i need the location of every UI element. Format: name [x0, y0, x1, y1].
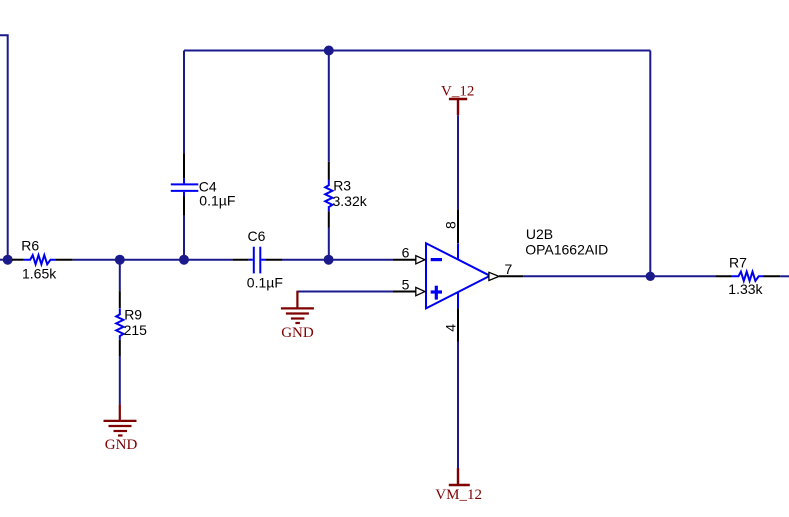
- wire left stub to left edge: [0, 259, 12, 261]
- pin 5 lead and arrow: [393, 276, 425, 295]
- node top R3 junction: [324, 46, 334, 56]
- ground GND at op-amp plus input: [281, 291, 314, 341]
- node output junction: [646, 272, 655, 281]
- wire pin 4 to VM_12: [457, 342, 459, 469]
- wire R3 bottom to main wire: [328, 228, 330, 260]
- svg-text:GND: GND: [105, 437, 138, 453]
- svg-text:5: 5: [402, 276, 410, 292]
- wire C4 junction to C6: [184, 259, 233, 261]
- wire R3 branch down from top: [328, 51, 330, 162]
- svg-text:0.1µF: 0.1µF: [247, 274, 283, 290]
- wire pin5 from GND corner: [297, 291, 393, 293]
- svg-text:R9: R9: [124, 307, 142, 323]
- wire top horizontal: [184, 50, 650, 52]
- capacitor C6: [233, 228, 283, 290]
- wire V_12 to pin 8: [457, 115, 459, 209]
- svg-text:U2B: U2B: [526, 226, 553, 242]
- svg-text:VM_12: VM_12: [435, 487, 482, 503]
- svg-text:OPA1662AID: OPA1662AID: [525, 241, 608, 257]
- capacitor C4: [171, 153, 236, 215]
- svg-text:GND: GND: [281, 325, 314, 341]
- pin 6 lead and arrow: [393, 245, 425, 264]
- wire C6 to R3 junction: [282, 259, 329, 261]
- node R9 junction: [115, 255, 125, 265]
- power symbol VM_12: [435, 468, 482, 503]
- wire C4 branch top corner: [183, 51, 185, 154]
- wire junction to C4 branch: [120, 259, 184, 261]
- svg-text:8: 8: [443, 221, 459, 229]
- wire output to junction: [523, 275, 650, 277]
- wire top-left corner from off-page: [0, 35, 8, 260]
- node C4 branch junction: [179, 255, 189, 265]
- wire junction to R7: [650, 275, 715, 277]
- resistor R9: [116, 291, 147, 356]
- svg-text:1.65k: 1.65k: [22, 266, 57, 282]
- resistor R7: [715, 255, 780, 297]
- svg-text:1.33k: 1.33k: [728, 281, 763, 297]
- svg-text:R6: R6: [21, 238, 39, 254]
- resistor R3: [325, 162, 368, 228]
- wire R9 to GND: [119, 356, 121, 404]
- svg-text:R3: R3: [333, 177, 351, 193]
- wire C4 bottom to main wire: [183, 216, 185, 260]
- svg-text:6: 6: [402, 245, 410, 261]
- node left junction: [3, 255, 13, 265]
- svg-text:C6: C6: [248, 228, 266, 244]
- pin 4 lead: [443, 308, 459, 341]
- svg-text:3.32k: 3.32k: [333, 193, 368, 209]
- resistor R6: [12, 238, 73, 282]
- wire feedback vertical right: [649, 51, 651, 277]
- pin 8 lead: [443, 210, 459, 243]
- power symbol V_12: [441, 84, 474, 116]
- wire R9 branch down: [119, 260, 121, 291]
- wire R6 to R9 junction: [73, 259, 120, 261]
- svg-text:V_12: V_12: [441, 84, 474, 100]
- ground GND below R9: [104, 404, 138, 453]
- svg-text:R7: R7: [729, 255, 747, 271]
- svg-text:0.1µF: 0.1µF: [199, 192, 235, 208]
- pin 7 output arrow and lead: [489, 261, 523, 281]
- svg-text:7: 7: [505, 261, 513, 277]
- wire R7 to right edge: [780, 275, 789, 277]
- wire junction to op-amp pin 6: [329, 259, 393, 261]
- svg-text:4: 4: [443, 324, 459, 332]
- svg-text:215: 215: [124, 322, 148, 338]
- node R3 bottom junction: [324, 255, 334, 265]
- op-amp U2B: [426, 226, 608, 308]
